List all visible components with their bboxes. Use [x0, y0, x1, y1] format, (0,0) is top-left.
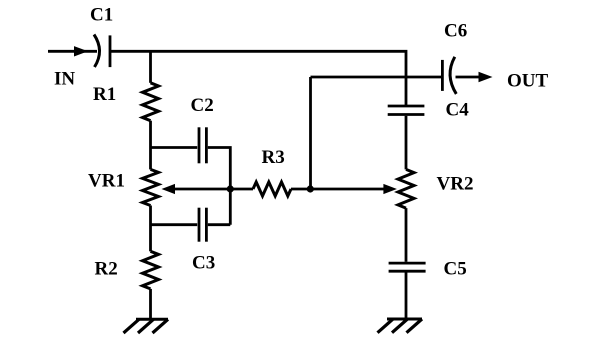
wire node A to R3	[230, 188, 253, 191]
svg-text:R2: R2	[95, 258, 118, 279]
resistor R1	[143, 83, 159, 121]
svg-text:C5: C5	[444, 259, 467, 280]
capacitor C1	[94, 35, 110, 68]
wire C5 bottom lead	[405, 273, 408, 320]
wire VR2 bottom to C5	[405, 208, 408, 262]
capacitor C2	[199, 127, 206, 163]
svg-text:C1: C1	[90, 4, 113, 25]
wire C3 branch left	[151, 223, 198, 226]
capacitor C4	[388, 106, 425, 115]
IN arrow head	[74, 46, 88, 56]
svg-text:OUT: OUT	[507, 71, 549, 92]
node A junction dot	[227, 185, 234, 192]
capacitor C6	[442, 57, 456, 94]
potentiometer VR2 body	[398, 169, 414, 208]
svg-text:VR2: VR2	[437, 173, 474, 194]
wire R1 top lead from top rail junction	[149, 51, 152, 83]
node B junction dot	[307, 185, 314, 192]
wire R3 to node B	[291, 188, 310, 191]
svg-text:IN: IN	[54, 68, 75, 89]
svg-text:C4: C4	[446, 100, 470, 121]
wire C4 bottom to VR2 top	[405, 116, 408, 170]
resistor R3	[253, 182, 291, 196]
capacitor C3	[199, 208, 206, 242]
svg-text:C6: C6	[444, 21, 467, 42]
OUT arrow head	[479, 72, 493, 82]
svg-text:VR1: VR1	[88, 171, 125, 192]
VR2 wiper arrow	[310, 184, 397, 194]
wire input lead	[48, 50, 97, 53]
wire C2 branch left	[151, 146, 198, 149]
wire VR1 bottom to R2 top	[149, 206, 152, 252]
wire C6 to OUT arrow	[456, 76, 483, 79]
wire OUT rail	[311, 76, 442, 79]
wire C2 branch right, corner down to node A	[208, 148, 231, 225]
capacitor C5	[389, 263, 426, 271]
ground (left)	[124, 319, 169, 333]
VR1 wiper arrow	[162, 184, 231, 194]
wire R1 bottom to VR1 top	[149, 121, 152, 170]
ground (right)	[378, 319, 423, 333]
svg-text:R3: R3	[262, 147, 285, 168]
wire C3 branch right to corner	[208, 223, 231, 226]
svg-text:R1: R1	[93, 84, 116, 105]
wire node B up to OUT rail	[309, 77, 312, 189]
wire R2 bottom lead	[149, 289, 152, 319]
potentiometer VR1 body	[143, 169, 159, 205]
svg-text:C3: C3	[192, 252, 215, 273]
resistor R2	[143, 251, 159, 289]
svg-text:C2: C2	[191, 95, 214, 116]
wire top rail from C1 to right corner, then down to C4	[111, 51, 406, 105]
